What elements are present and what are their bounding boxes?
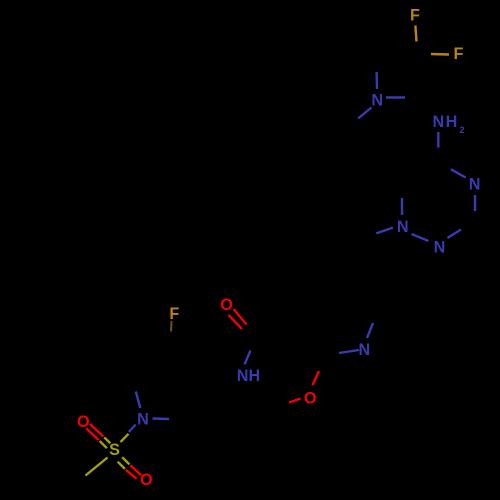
svg-text:N: N [434,239,446,257]
svg-text:H: H [446,113,458,131]
svg-text:S: S [109,441,120,459]
svg-text:O: O [220,296,233,314]
svg-text:H: H [249,367,261,385]
svg-text:F: F [410,6,420,24]
svg-text:O: O [77,413,90,431]
svg-text:N: N [397,218,409,236]
svg-text:2: 2 [459,125,464,135]
svg-text:F: F [169,305,179,323]
svg-text:N: N [137,411,149,429]
svg-text:O: O [140,471,153,489]
svg-text:N: N [371,92,383,110]
svg-text:O: O [304,389,317,407]
svg-text:N: N [359,341,371,359]
svg-text:N: N [432,113,444,131]
svg-text:N: N [237,367,249,385]
svg-text:N: N [469,176,481,194]
svg-text:F: F [454,45,464,63]
